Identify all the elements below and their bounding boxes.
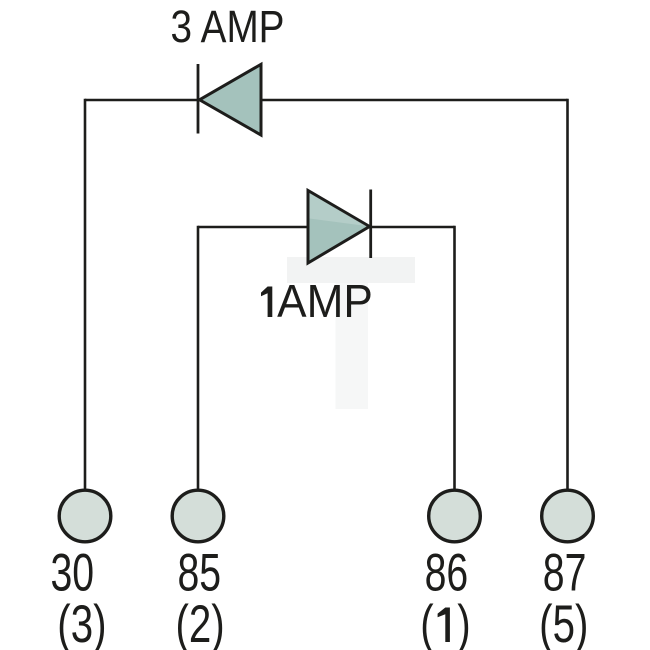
svg-text:3 AMP: 3 AMP bbox=[171, 1, 285, 51]
svg-text:AMP: AMP bbox=[277, 275, 373, 327]
svg-text:(3): (3) bbox=[57, 594, 106, 650]
svg-text:(5): (5) bbox=[539, 594, 588, 650]
svg-text:(2): (2) bbox=[175, 594, 224, 650]
svg-text:): ) bbox=[457, 594, 470, 650]
svg-text:(: ( bbox=[420, 594, 434, 650]
